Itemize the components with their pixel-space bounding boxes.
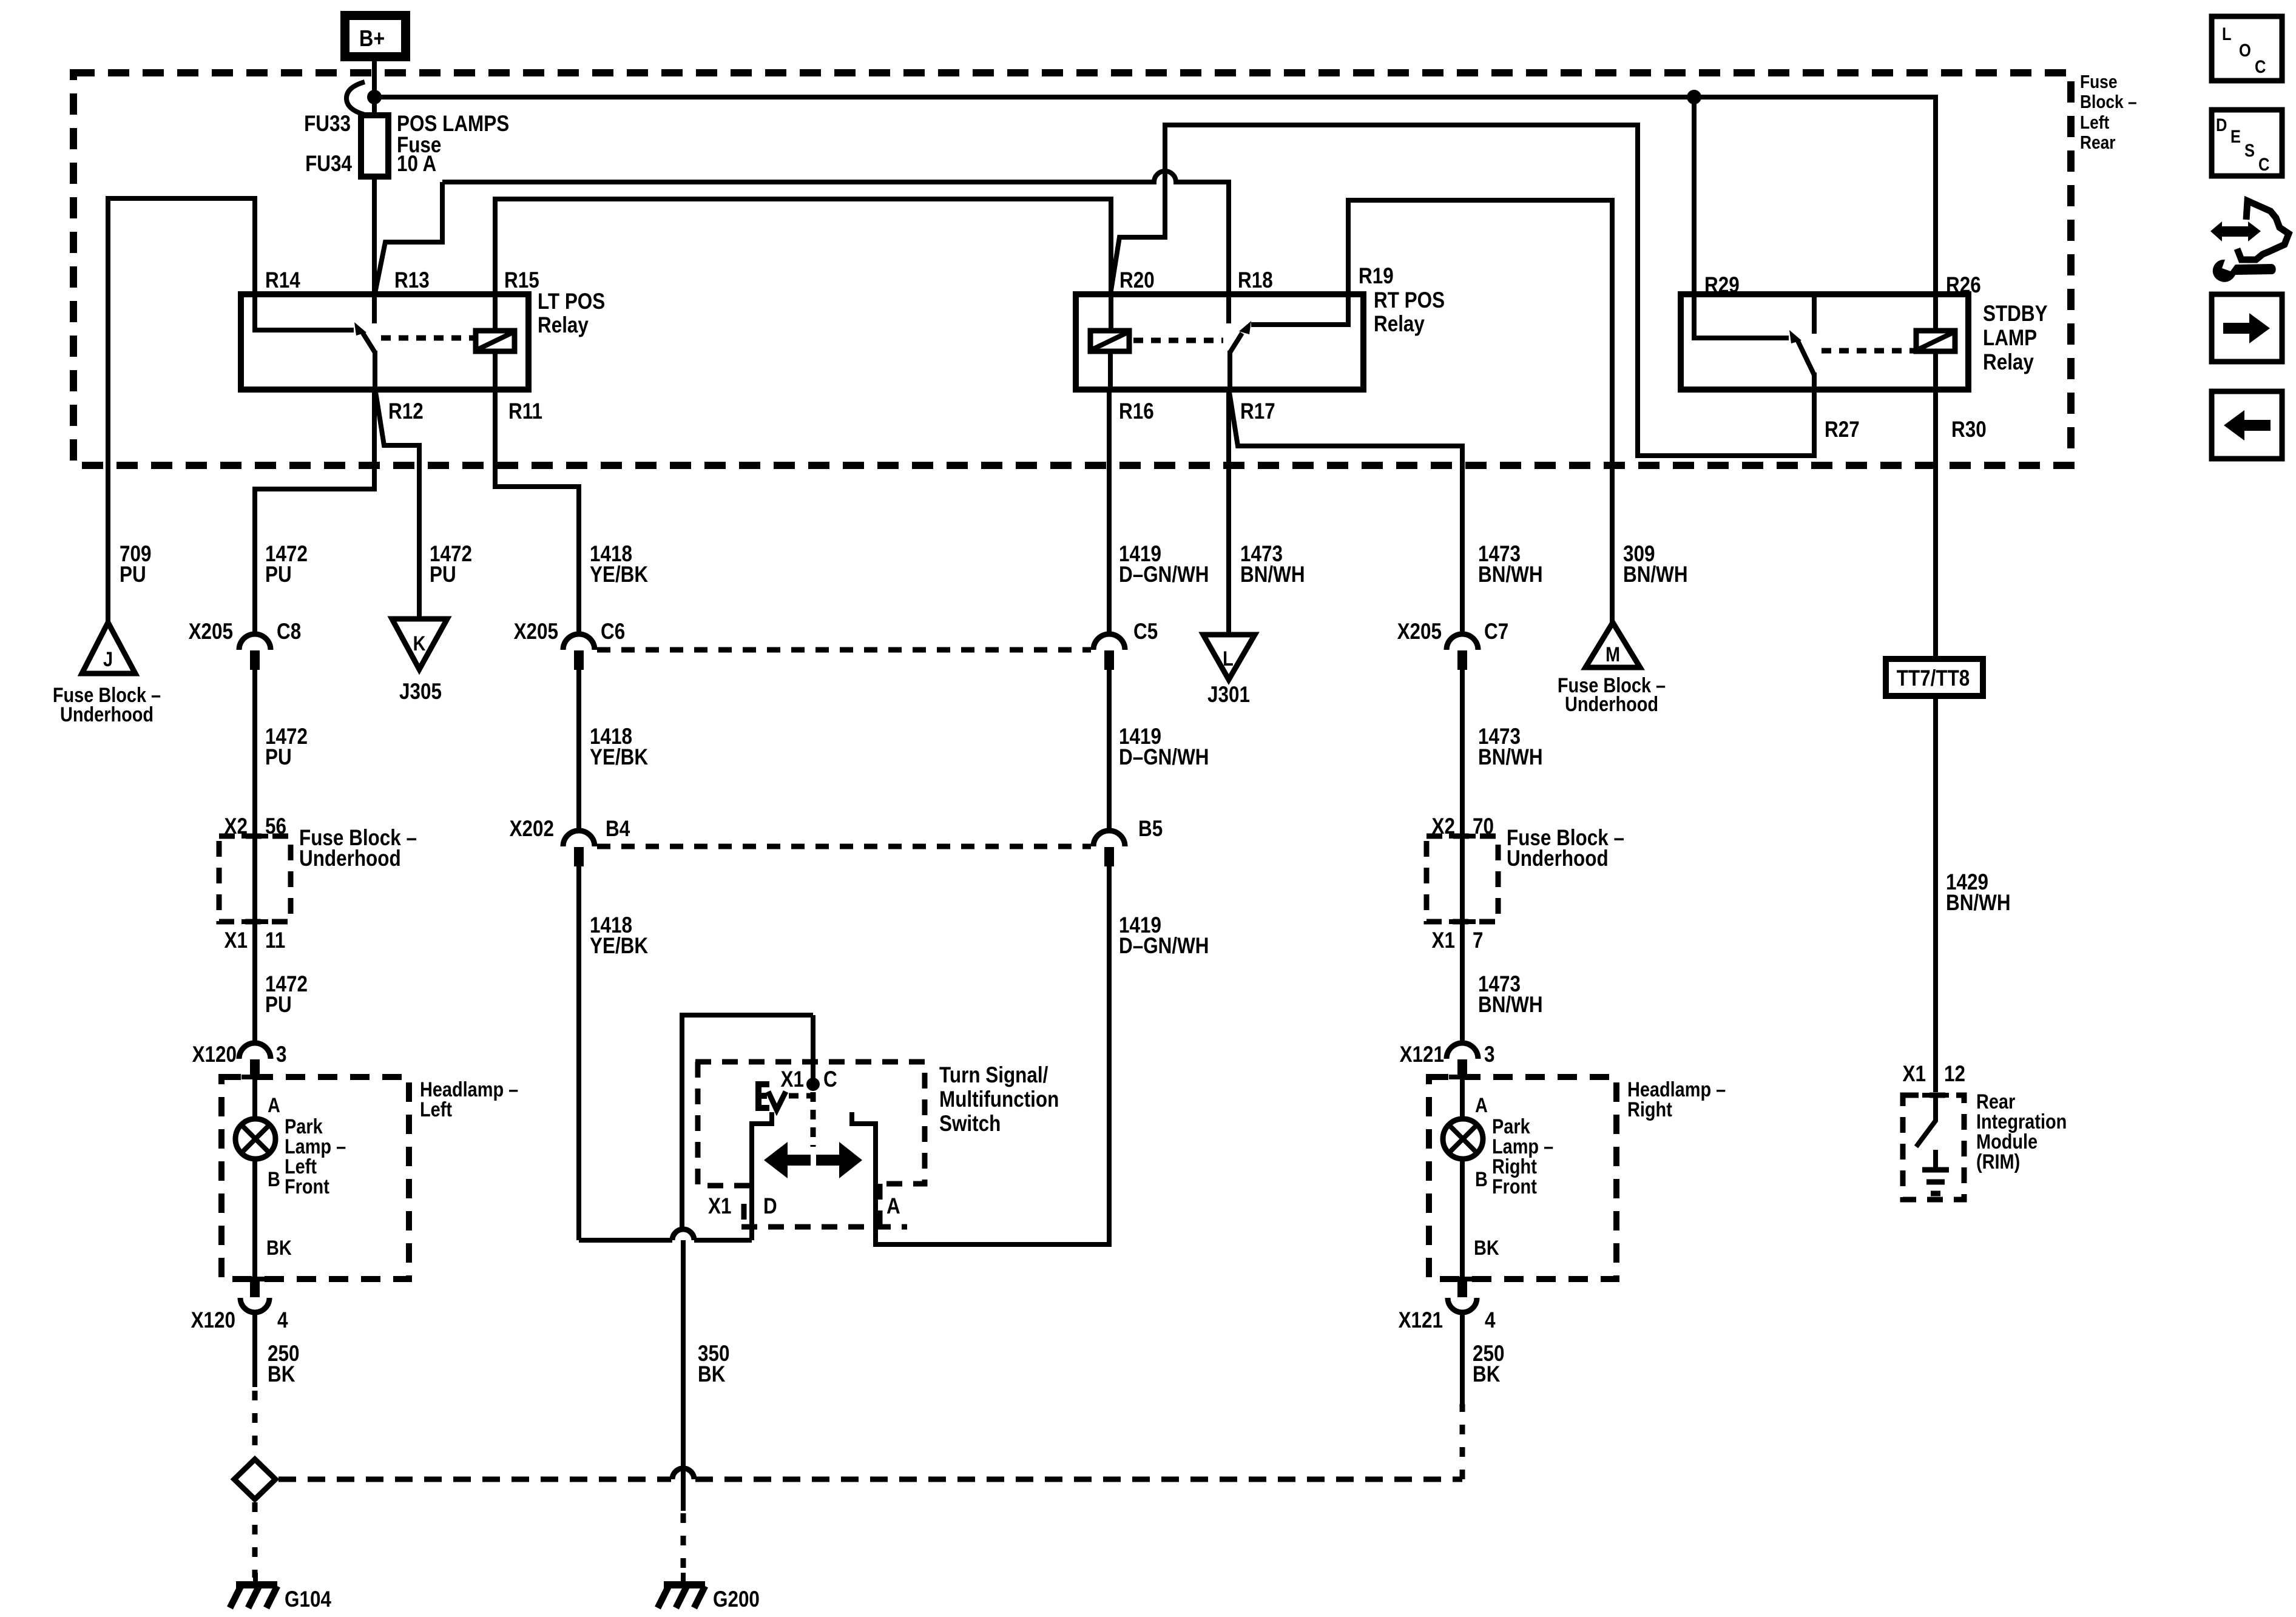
label X1 7 — [1432, 928, 1484, 953]
label 1473 BN/WH (J301) — [1240, 542, 1305, 587]
svg-text:R14: R14 — [265, 268, 300, 293]
svg-text:B: B — [1475, 1167, 1488, 1191]
dashed splice bus to right park lamp — [279, 1404, 1462, 1479]
pin R19 — [1359, 264, 1394, 289]
svg-text:70: 70 — [1473, 814, 1494, 839]
label X1 11 — [225, 928, 286, 953]
svg-text:Relay: Relay — [538, 313, 589, 338]
svg-text:3: 3 — [276, 1042, 286, 1067]
wire R14 to fuse block underhood J (709 PU) — [108, 198, 255, 623]
label STDBY LAMP Relay — [1983, 302, 2048, 375]
svg-text:D: D — [763, 1194, 777, 1219]
splice diamond S — [234, 1459, 275, 1499]
label Fuse Block - Underhood (M) — [1558, 673, 1666, 716]
STDBY relay R26 inner lead — [1933, 294, 1938, 331]
svg-text:R20: R20 — [1119, 268, 1155, 293]
RT POS relay coil control dashed link — [1133, 338, 1223, 343]
svg-text:E: E — [2230, 126, 2241, 146]
label X2 70 — [1432, 814, 1494, 839]
svg-text:D–GN/WH: D–GN/WH — [1119, 934, 1209, 959]
svg-text:PU: PU — [265, 562, 292, 587]
svg-text:L: L — [2222, 24, 2232, 44]
wire R13 jog up to rail — [375, 182, 442, 293]
svg-text:X1: X1 — [781, 1067, 804, 1092]
svg-text:D–GN/WH: D–GN/WH — [1119, 745, 1209, 770]
svg-text:BK: BK — [268, 1362, 295, 1387]
label 1473 BN/WH (low) — [1478, 972, 1543, 1018]
label 250 BK (right) — [1473, 1342, 1504, 1387]
svg-text:BN/WH: BN/WH — [1478, 562, 1543, 587]
wire B5 down to switch A contact — [852, 866, 1109, 1244]
label 1429 BN/WH — [1946, 870, 2011, 916]
svg-text:BN/WH: BN/WH — [1478, 745, 1543, 770]
switch movable contact dashed line — [811, 1092, 816, 1147]
splice J305 K — [392, 619, 447, 669]
svg-text:R15: R15 — [504, 268, 539, 293]
svg-text:B: B — [268, 1167, 280, 1191]
LT POS relay coil — [476, 331, 515, 351]
svg-text:Right: Right — [1627, 1098, 1672, 1121]
battery positive voltage B+ — [340, 11, 410, 61]
splice bus hop over 350 BK — [672, 1468, 694, 1479]
label A (right lamp) — [1475, 1093, 1488, 1117]
pin R20 — [1119, 268, 1155, 293]
switch dashed link E to C — [789, 1093, 812, 1099]
svg-text:C6: C6 — [601, 619, 625, 644]
svg-text:X1: X1 — [1432, 928, 1455, 953]
svg-text:R18: R18 — [1238, 268, 1273, 293]
svg-text:C8: C8 — [277, 619, 301, 644]
pin R16 — [1119, 399, 1154, 424]
svg-text:R30: R30 — [1951, 417, 1987, 442]
label J301 — [1207, 683, 1250, 707]
wire R17 branch to X205 C7 — [1229, 392, 1462, 635]
fuse block - left rear dashed boundary — [73, 73, 2071, 465]
svg-text:Front: Front — [1492, 1175, 1537, 1198]
pin R27 — [1825, 417, 1860, 442]
wire R12 branch to J305 K — [376, 392, 419, 619]
svg-text:BK: BK — [698, 1362, 726, 1387]
svg-text:C: C — [2255, 56, 2266, 76]
ground G104 — [230, 1573, 331, 1612]
wire 1418 YE/BK B4 to switch — [579, 866, 752, 1240]
fuse block underhood pass-through X2-56/X1-11 — [219, 836, 291, 922]
wire 1472 PU C8 to X120-3 — [252, 669, 257, 1044]
svg-text:G104: G104 — [285, 1587, 331, 1612]
wire 1419 D-GN/WH C5 to B5 — [1107, 669, 1112, 832]
svg-text:BN/WH: BN/WH — [1623, 562, 1688, 587]
svg-text:J: J — [103, 647, 113, 671]
pin R30 — [1951, 417, 1987, 442]
label J305 — [399, 680, 442, 704]
park lamp left bulb — [235, 1119, 275, 1159]
splice J301 L — [1203, 635, 1255, 680]
label 1473 BN/WH (C7) — [1478, 542, 1543, 587]
pin R18 — [1238, 268, 1273, 293]
wire 350 BK to G200 — [681, 1240, 686, 1578]
label POS LAMPS Fuse 10 A — [397, 112, 509, 177]
RT POS relay fixed contact arrowhead — [1239, 321, 1251, 334]
LT POS relay fixed contact arrowhead — [354, 322, 366, 336]
turn signal / multifunction switch ground path — [579, 1015, 813, 1240]
svg-text:X2: X2 — [225, 814, 248, 839]
connector X202 B4 — [510, 817, 630, 866]
svg-text:STDBY: STDBY — [1983, 302, 2048, 326]
wire B+ to fuse — [372, 61, 377, 115]
pin R12 — [388, 399, 424, 424]
label 1419 D-GN/WH (C5) — [1119, 542, 1209, 587]
RT POS relay R18 stub — [1226, 294, 1231, 323]
pin R11 — [508, 399, 542, 424]
RIM internal ground — [1922, 1150, 1949, 1193]
svg-text:4: 4 — [1485, 1308, 1495, 1333]
label Rear Integration Module (RIM) — [1976, 1090, 2067, 1173]
RT POS relay switch arm — [1230, 333, 1242, 353]
connector X205 C6 — [514, 619, 626, 670]
label FU33 — [304, 112, 351, 137]
svg-text:Switch: Switch — [939, 1112, 1001, 1136]
STDBY relay R30 inner lead — [1933, 351, 1938, 390]
svg-text:X202: X202 — [510, 817, 554, 842]
switch inline connector hook — [672, 1229, 694, 1240]
STDBY relay fixed contact arrowhead — [1789, 330, 1801, 343]
svg-text:X2: X2 — [1432, 814, 1455, 839]
svg-text:B+: B+ — [359, 26, 385, 52]
label LT POS Relay — [538, 289, 605, 338]
label 350 BK — [698, 1342, 729, 1387]
svg-text:FU34: FU34 — [305, 152, 352, 177]
wire fuse to R13 — [372, 177, 377, 294]
relay STDBY LAMP box — [1681, 294, 1968, 390]
svg-text:Turn Signal/: Turn Signal/ — [939, 1063, 1048, 1088]
RT POS relay coil — [1090, 331, 1129, 351]
label A (left lamp) — [268, 1093, 280, 1117]
svg-text:D: D — [2216, 115, 2227, 135]
svg-text:Relay: Relay — [1374, 312, 1425, 337]
wire X121-3 into lamp — [1460, 1077, 1465, 1119]
switch right arrow — [816, 1142, 862, 1178]
label X1 12 — [1903, 1062, 1965, 1087]
label 1472 PU (J305) — [430, 542, 472, 587]
wire 1418 YE/BK C6 to X202 B4 — [576, 669, 581, 832]
wire 250 BK left with inline splice — [252, 1312, 257, 1457]
label Fuse Block - Underhood (right) — [1507, 826, 1624, 871]
wire R27 net to R20 (via top rail) — [1110, 125, 1814, 456]
wire R11 to X205 C6 — [495, 390, 579, 635]
label 1419 D-GN/WH (low) — [1119, 913, 1209, 959]
pin R26 — [1946, 273, 1981, 298]
headlamp left dashed box — [221, 1077, 409, 1279]
svg-text:X205: X205 — [1397, 619, 1442, 644]
svg-text:Rear: Rear — [2080, 132, 2116, 153]
pin R29 — [1704, 273, 1740, 298]
svg-text:A: A — [268, 1093, 280, 1117]
label BK (left lamp) — [266, 1236, 292, 1260]
dashed in-harness link X205 C6 to C5 — [597, 647, 1091, 653]
switch left arrow — [764, 1142, 811, 1178]
RT POS relay R20 inner lead — [1109, 294, 1113, 331]
svg-text:J301: J301 — [1207, 683, 1250, 707]
pin R17 — [1240, 399, 1275, 424]
wire R30 to TT7/TT8 — [1933, 390, 1938, 659]
LT POS relay R11 inner lead — [493, 351, 498, 390]
connector X121 3 — [1400, 1042, 1495, 1079]
svg-text:BN/WH: BN/WH — [1240, 562, 1305, 587]
label 1472 PU (mid) — [265, 724, 308, 770]
svg-text:R11: R11 — [508, 399, 542, 424]
svg-text:11: 11 — [265, 928, 285, 953]
svg-text:X1: X1 — [708, 1194, 731, 1219]
svg-text:R29: R29 — [1704, 273, 1740, 298]
RIM internal switch lead — [1916, 1095, 1936, 1147]
connector X205 C8 — [189, 619, 302, 670]
svg-text:BK: BK — [1473, 1362, 1501, 1387]
label X1 D A — [708, 1194, 900, 1219]
STDBY relay coil control dashed link — [1822, 348, 1916, 354]
label X2 56 — [225, 814, 286, 839]
label Headlamp - Left — [420, 1078, 518, 1121]
relay LT POS box — [241, 294, 528, 390]
svg-text:X205: X205 — [189, 619, 233, 644]
label X1 C — [781, 1067, 837, 1092]
svg-text:X1: X1 — [1903, 1062, 1926, 1087]
RT POS relay R16 inner lead — [1108, 351, 1113, 390]
wire R16 to C5 — [1107, 390, 1112, 635]
label 709 PU — [120, 542, 151, 587]
wire B+ bus to STDBY relay R26 — [374, 97, 1936, 294]
svg-text:R17: R17 — [1240, 399, 1275, 424]
svg-text:56: 56 — [265, 814, 286, 839]
LT POS relay switch arm — [363, 333, 375, 353]
svg-text:7: 7 — [1473, 928, 1483, 953]
LT POS relay R13 stub — [372, 294, 377, 323]
label Fuse Block - Underhood (left) — [299, 826, 417, 871]
dashed wire diamond to G104 — [252, 1502, 258, 1578]
svg-text:Relay: Relay — [1983, 350, 2034, 375]
svg-text:Fuse: Fuse — [2080, 72, 2117, 92]
svg-text:G200: G200 — [713, 1587, 760, 1612]
label 250 BK (left) — [268, 1342, 299, 1387]
RT POS relay R17 inner lead — [1227, 351, 1232, 390]
junction node at R29 branch — [1687, 90, 1701, 104]
junction node X1-C — [806, 1078, 820, 1091]
fuse block underhood pass-through X2-70/X1-7 — [1427, 836, 1498, 922]
label 1472 PU (C8) — [265, 542, 308, 587]
fuse FU33/FU34 POS LAMPS 10A — [361, 115, 388, 177]
svg-text:O: O — [2239, 40, 2251, 60]
wire R12 to X205 C8 — [255, 390, 374, 635]
relay RT POS box — [1076, 294, 1363, 390]
icon forward arrow box — [2212, 294, 2282, 362]
connector B5 — [1093, 817, 1163, 866]
svg-text:C: C — [823, 1067, 837, 1092]
wire R29 riser — [1692, 97, 1697, 294]
headlamp right dashed box — [1429, 1077, 1616, 1279]
label Fuse Block - Underhood (J) — [53, 683, 161, 726]
icon back arrow box — [2212, 391, 2282, 459]
RT POS relay R19 fixed contact feed — [1251, 294, 1348, 325]
svg-text:R12: R12 — [388, 399, 424, 424]
bus bar symbol ( at fuse block feed — [346, 82, 365, 115]
icon harness routing (arrows and wrench) — [2210, 201, 2289, 282]
svg-text:YE/BK: YE/BK — [590, 562, 648, 587]
svg-text:BN/WH: BN/WH — [1478, 993, 1543, 1018]
rear integration module dashed box — [1903, 1095, 1964, 1200]
svg-text:Left: Left — [420, 1098, 452, 1121]
inline label TT7/TT8 — [1886, 659, 1983, 696]
label B (left lamp) — [268, 1167, 280, 1191]
ground G200 — [658, 1573, 760, 1612]
label Park Lamp - Left Front — [285, 1115, 346, 1198]
switch detent symbol E — [755, 1084, 786, 1110]
wire 250 BK right — [1460, 1312, 1465, 1404]
label Fuse Block - Left Rear — [2080, 72, 2137, 153]
svg-text:L: L — [1223, 647, 1234, 670]
svg-text:10 A: 10 A — [397, 152, 436, 177]
LT POS relay R15 inner lead — [493, 294, 498, 331]
svg-text:LAMP: LAMP — [1983, 326, 2037, 351]
label 1418 YE/BK (mid) — [590, 724, 648, 770]
wire X120-3 into lamp — [252, 1077, 257, 1119]
wire C pin riser — [811, 1015, 815, 1086]
svg-text:R26: R26 — [1946, 273, 1981, 298]
svg-text:Front: Front — [285, 1175, 329, 1198]
svg-text:C: C — [2258, 154, 2269, 174]
wire 1473 BN/WH C7 to X121-3 — [1460, 669, 1465, 1044]
svg-text:Block –: Block – — [2080, 92, 2137, 112]
park lamp right bulb — [1443, 1119, 1483, 1159]
svg-text:R19: R19 — [1359, 264, 1394, 289]
svg-text:TT7/TT8: TT7/TT8 — [1897, 666, 1970, 691]
svg-text:J305: J305 — [399, 680, 442, 704]
connector X205 C7 — [1397, 619, 1509, 670]
wire bulb to X120-4 — [252, 1159, 257, 1279]
svg-text:Underhood: Underhood — [1507, 846, 1609, 871]
svg-text:Underhood: Underhood — [299, 846, 401, 871]
label 1472 PU (low) — [265, 972, 308, 1018]
label FU34 — [305, 152, 352, 177]
STDBY relay R27 inner lead — [1812, 373, 1817, 390]
svg-text:YE/BK: YE/BK — [590, 934, 648, 959]
label Park Lamp - Right Front — [1492, 1115, 1553, 1198]
connector X120 4 — [191, 1279, 288, 1333]
connector X120 3 — [192, 1042, 287, 1079]
svg-text:12: 12 — [1944, 1062, 1965, 1087]
svg-text:PU: PU — [430, 562, 456, 587]
svg-text:K: K — [413, 632, 426, 655]
svg-text:S: S — [2244, 140, 2255, 160]
label B (right lamp) — [1475, 1167, 1488, 1191]
switch dashed housing — [695, 1062, 925, 1227]
svg-text:BK: BK — [1474, 1236, 1499, 1260]
label Headlamp - Right — [1627, 1078, 1726, 1121]
svg-text:X1: X1 — [225, 928, 248, 953]
STDBY relay contact stub — [1812, 294, 1817, 334]
svg-text:C7: C7 — [1484, 619, 1508, 644]
svg-text:A: A — [886, 1194, 900, 1219]
svg-text:X121: X121 — [1399, 1308, 1443, 1333]
wire bulb to X121-4 — [1460, 1159, 1465, 1279]
label 1419 D-GN/WH (mid) — [1119, 724, 1209, 770]
svg-text:X120: X120 — [192, 1042, 237, 1067]
label 1418 YE/BK (C6) — [590, 542, 648, 587]
label 1418 YE/BK (low) — [590, 913, 648, 959]
svg-text:Left: Left — [2080, 112, 2110, 133]
off-page connector M Fuse Block Underhood — [1585, 623, 1640, 667]
svg-text:PU: PU — [265, 993, 292, 1018]
svg-text:PU: PU — [120, 562, 146, 587]
pin R14 — [265, 268, 300, 293]
LT POS relay internal R14 contact feed — [255, 294, 354, 330]
wire R19 rail to M column — [1348, 200, 1612, 623]
svg-text:Underhood: Underhood — [60, 703, 154, 726]
svg-text:D–GN/WH: D–GN/WH — [1119, 562, 1209, 587]
svg-text:RT POS: RT POS — [1374, 288, 1445, 313]
dashed in-harness link X202 B4 to B5 — [597, 844, 1091, 849]
svg-text:B4: B4 — [606, 817, 630, 842]
svg-text:PU: PU — [265, 745, 292, 770]
svg-text:X120: X120 — [191, 1308, 235, 1333]
label 1473 BN/WH (mid) — [1478, 724, 1543, 770]
wire 1429 BN/WH to RIM — [1933, 696, 1938, 1092]
pin R13 — [394, 268, 430, 293]
off-page connector J Fuse Block Underhood — [82, 623, 135, 673]
svg-text:YE/BK: YE/BK — [590, 745, 648, 770]
svg-text:(RIM): (RIM) — [1976, 1150, 2020, 1173]
svg-text:LT POS: LT POS — [538, 289, 605, 314]
svg-text:X121: X121 — [1400, 1042, 1444, 1067]
svg-text:A: A — [1475, 1093, 1488, 1117]
LT POS relay coil control dashed link — [381, 336, 476, 341]
svg-text:R16: R16 — [1119, 399, 1154, 424]
wire R15 rail to R20 — [495, 199, 1111, 294]
svg-text:BN/WH: BN/WH — [1946, 891, 2011, 916]
svg-text:X205: X205 — [514, 619, 558, 644]
wire R17 to J301 L — [1226, 390, 1231, 635]
svg-text:M: M — [1606, 643, 1620, 666]
svg-text:C5: C5 — [1133, 619, 1158, 644]
svg-text:FU33: FU33 — [304, 112, 351, 137]
icon DESC box — [2212, 110, 2282, 176]
connector X121 4 — [1399, 1279, 1496, 1333]
svg-text:3: 3 — [1484, 1042, 1494, 1067]
svg-text:Multifunction: Multifunction — [939, 1087, 1059, 1112]
svg-text:B5: B5 — [1138, 817, 1163, 842]
connector C5 — [1093, 619, 1158, 670]
label Turn Signal / Multifunction Switch — [939, 1063, 1059, 1136]
wire rail R13 to R18 with hop over R20 branch — [442, 171, 1229, 294]
junction node under B+ — [367, 90, 382, 104]
LT POS relay R12 inner lead — [373, 351, 377, 390]
STDBY relay switch arm — [1798, 341, 1814, 375]
icon LOC box — [2212, 16, 2282, 81]
svg-text:BK: BK — [266, 1236, 292, 1260]
label BK (right lamp) — [1474, 1236, 1499, 1260]
label RT POS Relay — [1374, 288, 1445, 337]
label 309 BN/WH — [1623, 542, 1688, 587]
svg-text:R13: R13 — [394, 268, 430, 293]
pin R15 — [504, 268, 539, 293]
svg-text:Underhood: Underhood — [1565, 692, 1658, 716]
STDBY relay coil — [1916, 331, 1955, 351]
STDBY relay R29 contact feed — [1694, 294, 1789, 338]
svg-text:R27: R27 — [1825, 417, 1860, 442]
svg-text:4: 4 — [277, 1308, 288, 1333]
